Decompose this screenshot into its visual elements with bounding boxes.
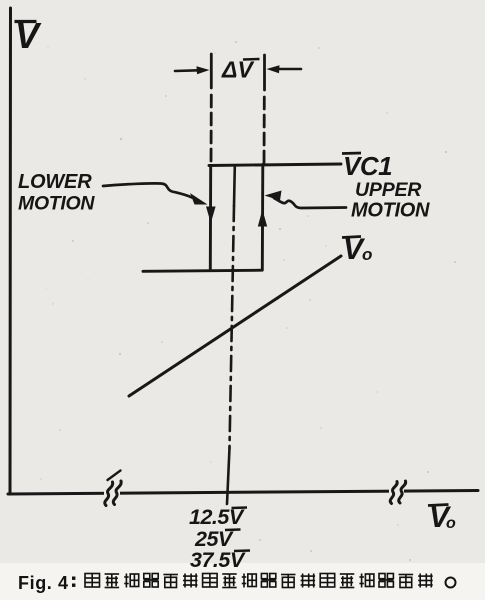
- svg-text:UPPER: UPPER: [355, 179, 421, 201]
- svg-text:Fig. 4: Fig. 4: [18, 573, 69, 593]
- svg-text:MOTION: MOTION: [351, 200, 430, 222]
- svg-text:o: o: [446, 515, 456, 532]
- svg-text:LOWER: LOWER: [18, 171, 92, 193]
- svg-text:VC1: VC1: [343, 151, 392, 181]
- svg-text:MOTION: MOTION: [18, 193, 95, 215]
- svg-text:o: o: [362, 245, 372, 264]
